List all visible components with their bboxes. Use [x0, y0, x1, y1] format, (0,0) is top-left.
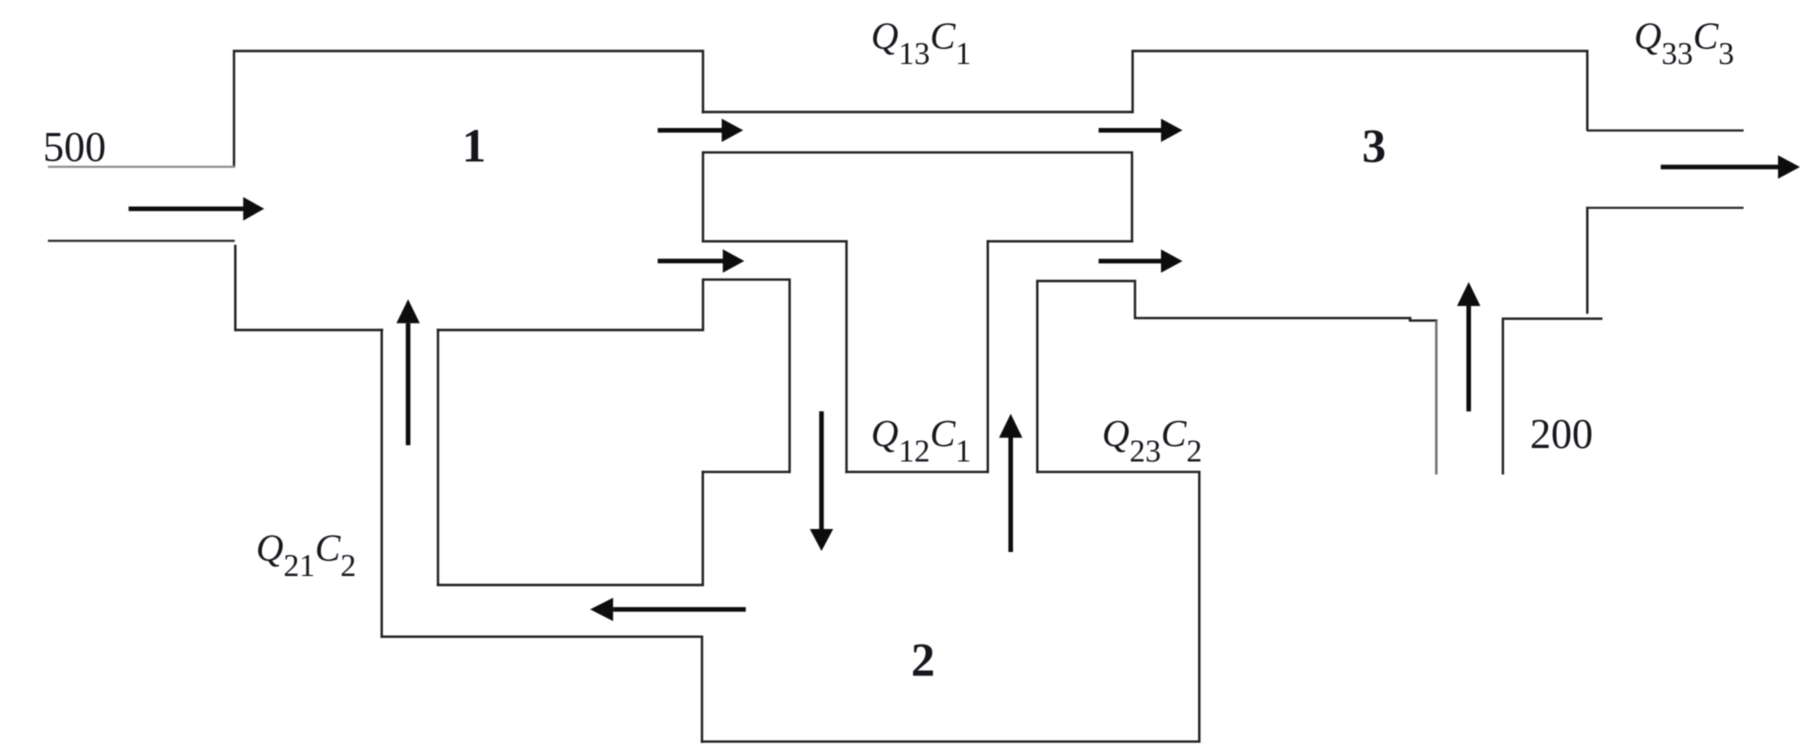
- flow arrow outlet Q33: [1661, 165, 1778, 170]
- svg-text:1: 1: [462, 119, 486, 172]
- svg-text:2: 2: [911, 634, 935, 687]
- tank 3 bottom wall jog: [1410, 318, 1436, 321]
- pipe Q13 top wall: [703, 111, 1132, 113]
- channel Q23 left wall: [987, 241, 989, 472]
- inlet pipe 500 top wall: [49, 166, 234, 168]
- svg-text:Q12C1: Q12C1: [871, 413, 971, 469]
- pipe Q13 bottom wall (top of T-divider): [703, 152, 1132, 241]
- flow arrow inlet 200: [1466, 305, 1471, 411]
- flow arrow Q13 out of tank 1: [658, 128, 726, 133]
- pipe Q21 outer left wall: [381, 330, 383, 637]
- svg-text:3: 3: [1362, 120, 1386, 173]
- outlet pipe Q33 top wall: [1588, 129, 1743, 131]
- pipe Q21 inner vertical wall: [437, 330, 439, 585]
- tank 1 lower-left wall: [235, 246, 382, 330]
- tank 1 top and left walls: [234, 51, 703, 166]
- outlet pipe Q33 bottom wall: [1588, 207, 1743, 209]
- flow arrow Q23 into tank 3: [1099, 259, 1161, 264]
- svg-text:500: 500: [43, 125, 106, 171]
- flow arrow Q12 down into tank 2: [819, 411, 824, 529]
- flow arrow Q21 leftward from tank 2: [613, 607, 746, 612]
- svg-text:Q13C1: Q13C1: [871, 16, 971, 72]
- flow arrow inlet 500: [129, 207, 247, 212]
- pipe Q21 inner bottom wall and tank 2 upper-left wall: [438, 472, 703, 585]
- svg-text:Q33C3: Q33C3: [1634, 16, 1734, 72]
- pipe Q21 outer bottom wall and tank 2 left wall: [382, 637, 702, 742]
- tank 1 bottom-right wall and outlet step to channel Q12: [438, 280, 790, 472]
- svg-text:Q21C2: Q21C2: [256, 528, 356, 584]
- flow arrow Q13 into tank 3: [1099, 128, 1161, 133]
- svg-text:200: 200: [1530, 412, 1593, 458]
- channel Q23 right wall and tank 3 inlet step / bottom wall: [1037, 281, 1410, 472]
- tank 2 top right wall, right wall and bottom wall: [702, 472, 1199, 742]
- tank 2 top wall left segment: [703, 471, 789, 473]
- T-divider bottom-right wall: [988, 240, 1132, 242]
- tank 3 top and side walls: [1133, 51, 1588, 129]
- inlet 200 left wall: [1435, 322, 1437, 474]
- flow arrow Q21 up into tank 1: [406, 323, 411, 445]
- svg-text:Q23C2: Q23C2: [1102, 413, 1202, 469]
- flow arrow Q12 out of tank 1: [658, 259, 726, 264]
- tank 3 lower-right wall: [1586, 208, 1588, 313]
- tank 2 top wall middle segment: [847, 471, 988, 473]
- T-divider bottom-left wall and channel Q12 right wall: [703, 241, 847, 472]
- inlet 200 right wall and tank 3 bottom-right wall: [1503, 319, 1601, 474]
- flow arrow Q23 up from tank 2: [1008, 437, 1013, 552]
- inlet pipe 500 bottom wall: [49, 240, 234, 242]
